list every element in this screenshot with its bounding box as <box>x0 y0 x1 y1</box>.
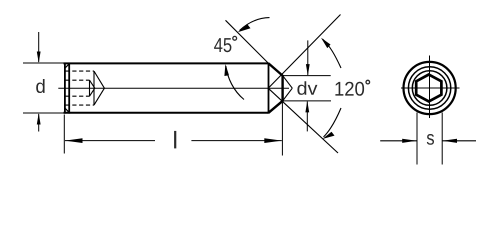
dimension d extension line bottom <box>23 112 64 114</box>
120 degree leader arc upper <box>323 39 342 68</box>
hex socket hidden line outer top <box>66 70 95 72</box>
dimension dv extension line bottom <box>283 100 331 102</box>
dimension s arrow right <box>443 139 457 143</box>
right thread runout line <box>268 63 270 114</box>
120 degree leader arc lower <box>324 108 342 137</box>
end view horizontal centerline <box>401 87 460 89</box>
dimension d line lower segment <box>38 114 40 132</box>
cone construction ray lower long <box>268 88 338 153</box>
degree mark of 45 <box>233 36 237 40</box>
dimension dv line upper segment <box>307 40 309 75</box>
cone apex construction stub upper <box>283 76 293 89</box>
socket inner cone lower <box>90 88 95 96</box>
hex socket <box>416 75 441 102</box>
dimension s line right tail <box>442 140 476 142</box>
centerline of side view <box>58 87 289 89</box>
45 degree construction line <box>226 20 269 63</box>
hex socket hidden line inner top <box>66 79 90 81</box>
45 degree leader arrowhead upper <box>238 25 251 33</box>
dimension l arrow right <box>264 138 282 143</box>
label d <box>36 79 44 93</box>
socket inner cone upper <box>90 80 95 88</box>
45 degree leader arrowhead lower <box>224 64 229 76</box>
label s <box>427 134 434 145</box>
hex socket hidden line outer bottom <box>66 104 95 106</box>
dimension s arrow left <box>402 139 416 143</box>
end view vertical centerline <box>429 56 431 119</box>
120 degree leader arrowhead upper <box>321 38 331 48</box>
label 120deg <box>335 82 364 96</box>
dimension l extension line left <box>63 115 65 154</box>
right top chamfer to cone point <box>269 63 283 75</box>
right bottom chamfer to cone point <box>269 101 283 113</box>
120 degree leader arrowhead lower <box>322 132 334 139</box>
screw body bottom outline <box>64 112 269 114</box>
dimension dv arrow bottom <box>305 101 309 113</box>
cone construction ray upper long <box>268 15 340 89</box>
label 45deg <box>214 38 231 52</box>
dimension dv line lower segment <box>306 102 308 132</box>
degree mark of 120 <box>366 80 370 84</box>
dimension s extension line right <box>441 113 443 165</box>
dimension dv extension line top <box>283 75 331 77</box>
left bottom chamfer diagonal <box>65 108 70 113</box>
chamfer circle <box>412 71 447 106</box>
socket drill cone upper <box>94 71 104 88</box>
dimension l line left segment <box>65 140 155 142</box>
dimension s extension line left <box>416 113 418 165</box>
outer circle major diameter <box>404 62 456 114</box>
screw left face <box>64 63 66 114</box>
label l <box>174 131 176 148</box>
left top chamfer diagonal <box>65 63 70 68</box>
left thread chamfer line <box>68 63 70 114</box>
45 degree leader arc lower <box>226 66 244 100</box>
hex socket inner end face <box>89 80 91 96</box>
cone apex construction stub lower <box>283 88 293 101</box>
dimension d arrow top <box>37 52 41 64</box>
label dv <box>297 81 317 95</box>
socket drill cone lower <box>94 88 104 105</box>
screw body top outline <box>64 62 269 64</box>
cone point tip face <box>281 75 283 102</box>
dimension dv arrow top <box>306 64 310 76</box>
dimension l extension line right <box>281 102 283 156</box>
thread minor circle <box>408 67 450 109</box>
dimension d extension line top <box>23 62 64 64</box>
hex socket hidden line inner bottom <box>66 95 90 97</box>
45 degree leader arc upper <box>240 18 270 31</box>
dimension d arrow bottom <box>37 113 41 125</box>
hex socket end face <box>93 71 95 105</box>
dimension d line upper segment <box>38 32 40 62</box>
dimension l line right segment <box>191 140 281 142</box>
dimension s line left tail <box>380 140 417 142</box>
dimension l arrow left <box>65 138 83 143</box>
